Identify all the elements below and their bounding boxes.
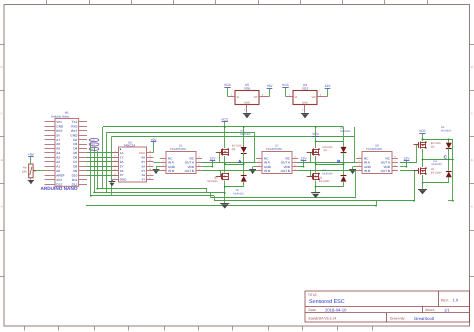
svg-text:C: C [471, 113, 473, 116]
svg-text:1Y: 1Y [120, 155, 124, 159]
svg-text:3: 3 [258, 164, 259, 167]
svg-text:A3: A3 [56, 156, 60, 160]
svg-text:MUR460: MUR460 [323, 173, 334, 176]
svg-text:4: 4 [114, 163, 115, 166]
svg-text:D12: D12 [72, 182, 78, 186]
svg-text:GND: GND [120, 178, 128, 182]
svg-text:A5: A5 [56, 147, 60, 151]
svg-text:1: 1 [114, 150, 115, 153]
svg-text:D7: D7 [73, 160, 77, 164]
svg-text:Q1: Q1 [324, 149, 328, 152]
svg-text:5A: 5A [142, 164, 146, 168]
svg-text:6: 6 [394, 164, 395, 167]
svg-text:4: 4 [258, 168, 259, 171]
svg-text:A1: A1 [56, 164, 60, 168]
svg-text:OUT B: OUT B [381, 169, 390, 173]
svg-text:VCC: VCC [139, 151, 146, 155]
svg-text:D: D [471, 66, 473, 69]
svg-text:D9: D9 [73, 169, 77, 173]
svg-text:13: 13 [149, 155, 151, 158]
svg-text:3V3: 3V3 [56, 178, 62, 182]
svg-text:1A: 1A [120, 151, 124, 155]
svg-text:A4: A4 [56, 151, 60, 155]
svg-text:8: 8 [198, 155, 199, 158]
svg-text:12V: 12V [301, 157, 308, 161]
svg-text:7: 7 [198, 160, 199, 163]
svg-text:6A: 6A [142, 155, 146, 159]
svg-text:VIN: VIN [56, 120, 61, 124]
svg-text:Q6: Q6 [431, 146, 435, 149]
svg-text:AREF: AREF [56, 173, 64, 177]
svg-text:D8: D8 [73, 164, 77, 168]
svg-text:A0: A0 [56, 169, 60, 173]
svg-text:IRF5305: IRF5305 [431, 142, 442, 145]
svg-text:D13: D13 [56, 182, 62, 186]
svg-text:MUR460: MUR460 [240, 133, 251, 136]
svg-text:D5: D5 [73, 151, 77, 155]
svg-text:1.0: 1.0 [453, 298, 459, 303]
svg-text:D6: D6 [73, 156, 77, 160]
svg-text:A: A [471, 206, 473, 209]
svg-text:MUR460: MUR460 [441, 130, 452, 133]
svg-text:Arduino Nano: Arduino Nano [51, 115, 70, 119]
svg-text:2: 2 [162, 160, 163, 163]
svg-text:MUR460: MUR460 [233, 192, 244, 195]
svg-text:VCC: VCC [224, 83, 232, 87]
svg-text:12: 12 [149, 159, 151, 162]
svg-text:8: 8 [149, 177, 150, 180]
svg-text:A: A [1, 206, 3, 209]
svg-text:TX1: TX1 [72, 120, 78, 124]
svg-text:VI: VI [237, 95, 240, 99]
svg-text:4: 4 [162, 168, 163, 171]
svg-text:A6: A6 [56, 142, 60, 146]
svg-text:Sensored ESC: Sensored ESC [309, 299, 345, 305]
svg-text:2018-04-10: 2018-04-10 [325, 307, 347, 312]
svg-text:IRFZ44N: IRFZ44N [431, 171, 442, 174]
svg-text:TC4427CPA: TC4427CPA [266, 147, 282, 151]
svg-text:MUR460: MUR460 [432, 163, 443, 166]
svg-text:B: B [1, 159, 3, 162]
svg-text:6: 6 [198, 164, 199, 167]
svg-text:A2: A2 [56, 160, 60, 164]
svg-text:10k: 10k [22, 170, 27, 174]
svg-text:12V: 12V [404, 157, 411, 161]
svg-text:TC4427CPA: TC4427CPA [366, 147, 382, 151]
svg-text:6Y: 6Y [142, 160, 146, 164]
svg-text:5: 5 [114, 168, 115, 171]
svg-text:D: D [1, 66, 3, 69]
svg-text:2A: 2A [120, 160, 124, 164]
svg-text:IN B: IN B [364, 169, 370, 173]
svg-text:12V: 12V [210, 157, 217, 161]
svg-text:3: 3 [358, 164, 359, 167]
svg-text:OUT B: OUT B [281, 169, 290, 173]
svg-text:MUR460: MUR460 [340, 130, 351, 133]
svg-text:1/1: 1/1 [444, 307, 450, 312]
svg-text:C: C [1, 113, 3, 116]
svg-text:IN B: IN B [168, 169, 174, 173]
svg-text:Drawn By:: Drawn By: [390, 317, 405, 321]
svg-text:Date:: Date: [309, 308, 317, 312]
svg-text:10: 10 [149, 168, 151, 171]
svg-text:RST: RST [71, 129, 77, 133]
svg-text:+5V: +5V [28, 153, 35, 157]
svg-text:TITLE:: TITLE: [308, 293, 318, 297]
svg-text:2Y: 2Y [120, 164, 124, 168]
svg-text:5Y: 5Y [142, 169, 146, 173]
svg-text:ARDUINO NANO: ARDUINO NANO [41, 186, 78, 191]
svg-text:5: 5 [198, 168, 199, 171]
svg-text:RX0: RX0 [71, 124, 77, 128]
svg-text:D3: D3 [73, 142, 77, 146]
svg-text:11: 11 [149, 163, 151, 166]
svg-text:GND: GND [56, 124, 64, 128]
svg-text:Q4: Q4 [232, 148, 236, 151]
svg-text:D2: D2 [73, 138, 77, 142]
svg-text:4A: 4A [142, 173, 146, 177]
svg-text:7: 7 [294, 160, 295, 163]
svg-text:D10: D10 [72, 173, 78, 177]
svg-text:7: 7 [114, 177, 115, 180]
svg-text:Sheet:: Sheet: [425, 308, 435, 312]
svg-text:GND: GND [70, 133, 78, 137]
svg-text:Ha1: Ha1 [91, 139, 96, 142]
svg-text:1: 1 [358, 155, 359, 158]
svg-text:2: 2 [358, 160, 359, 163]
svg-text:8: 8 [394, 155, 395, 158]
svg-text:3: 3 [114, 159, 115, 162]
svg-text:RST: RST [56, 129, 62, 133]
svg-text:6: 6 [294, 164, 295, 167]
svg-text:VI: VI [295, 95, 298, 99]
svg-text:4Y: 4Y [142, 178, 146, 182]
svg-text:5: 5 [394, 168, 395, 171]
svg-text:1: 1 [258, 155, 259, 158]
svg-text:8: 8 [294, 155, 295, 158]
svg-text:IRFZ44N: IRFZ44N [207, 180, 218, 183]
svg-text:3: 3 [162, 164, 163, 167]
svg-text:4: 4 [358, 168, 359, 171]
svg-text:74HC14: 74HC14 [124, 144, 136, 148]
svg-text:IRFZ44N: IRFZ44N [319, 180, 330, 183]
svg-text:D11: D11 [72, 178, 78, 182]
svg-text:Hb1: Hb1 [91, 144, 96, 147]
svg-text:2: 2 [114, 155, 115, 158]
svg-text:+5V: +5V [267, 84, 274, 88]
svg-text:GND: GND [244, 102, 250, 105]
svg-text:12V: 12V [325, 84, 332, 88]
svg-text:3Y: 3Y [120, 173, 124, 177]
svg-text:GreatScott: GreatScott [414, 316, 435, 321]
svg-text:7812: 7812 [302, 87, 309, 91]
svg-text:B: B [471, 159, 473, 162]
svg-text:D4: D4 [73, 147, 77, 151]
svg-text:EasyEDA V5.3.14: EasyEDA V5.3.14 [309, 317, 337, 321]
svg-text:OUT B: OUT B [185, 169, 194, 173]
svg-text:9: 9 [149, 172, 150, 175]
svg-text:VCC: VCC [221, 118, 228, 122]
svg-text:2: 2 [258, 160, 259, 163]
svg-text:VCC: VCC [419, 129, 426, 133]
svg-text:14: 14 [149, 150, 151, 153]
svg-text:GND: GND [302, 102, 308, 105]
svg-text:REV:: REV: [441, 298, 449, 302]
svg-text:7805: 7805 [244, 87, 251, 91]
svg-text:A7: A7 [56, 138, 60, 142]
svg-text:TC4427CPA: TC4427CPA [170, 147, 186, 151]
svg-text:3A: 3A [120, 169, 124, 173]
svg-text:6: 6 [114, 172, 115, 175]
svg-text:VCC: VCC [282, 83, 290, 87]
svg-text:1: 1 [162, 155, 163, 158]
svg-text:7: 7 [394, 160, 395, 163]
svg-text:5: 5 [294, 168, 295, 171]
svg-text:IN B: IN B [264, 169, 270, 173]
